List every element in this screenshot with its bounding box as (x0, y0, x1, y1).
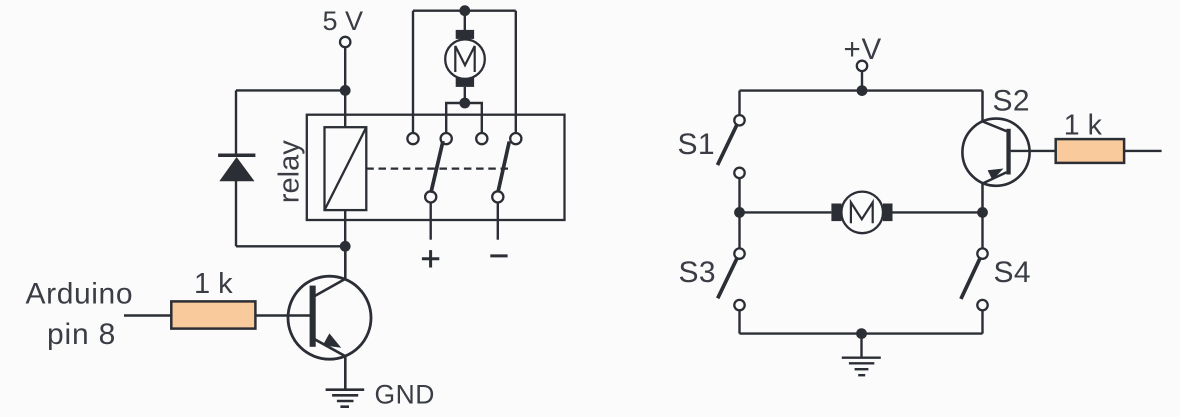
node: motor left junction (734, 207, 745, 218)
switch S4 arm (961, 258, 980, 299)
relay coil diagonal (325, 127, 367, 210)
ground symbol (right) (842, 358, 881, 376)
wire transistor to S4 (981, 212, 983, 248)
switch S3 bottom contact (734, 300, 744, 310)
svg-text:S3: S3 (679, 256, 717, 289)
motor M1 top brush (456, 30, 474, 39)
relay contact terminal 4 (510, 133, 521, 144)
motor M1 letter M (455, 46, 474, 72)
relay pole contact A (425, 191, 436, 202)
wire S1 to motor node (738, 178, 740, 212)
wire S3 to bottom rail (738, 310, 740, 333)
wire diode branch lower vertical (235, 180, 237, 246)
wire motor top lead (464, 11, 466, 31)
wire right drop to contact 4 (515, 11, 517, 133)
relay pole contact B (492, 191, 503, 202)
switch S1 top contact (734, 115, 744, 125)
switch S4 top contact (977, 248, 987, 258)
switch S3 arm (718, 258, 737, 298)
wire pole A lead (430, 203, 432, 240)
switch S1 bottom contact (734, 168, 744, 178)
wire rail to S1 (738, 91, 740, 116)
wire top rail of motor loop (413, 9, 516, 11)
node: motor bottom junction (459, 98, 470, 109)
transistor S2 emitter lead (983, 172, 1007, 212)
relay contact terminal 1 (407, 133, 418, 144)
node: motor top junction (459, 5, 470, 16)
motor M2 letter M (851, 202, 873, 223)
transistor Q1 emitter arrow (323, 333, 341, 347)
node: junction 5V / diode branch (340, 85, 351, 96)
wire motor right lead (893, 211, 983, 213)
label + terminal (422, 250, 439, 267)
wire junction to diode top (236, 89, 345, 91)
5V supply terminal (340, 37, 350, 47)
switch S1 arm (718, 125, 737, 165)
node: +V rail junction (857, 85, 868, 96)
wire bottom rail (740, 332, 983, 334)
+V supply terminal (857, 61, 867, 71)
node: motor right junction (977, 207, 988, 218)
label - terminal (490, 254, 507, 257)
svg-text:pin 8: pin 8 (47, 318, 116, 351)
motor M2 right brush (883, 204, 893, 222)
svg-text:relay: relay (274, 140, 306, 203)
node: collector junction (340, 241, 351, 252)
wire +V terminal drop (861, 71, 863, 91)
transistor S2 collector lead (983, 91, 1007, 132)
relay enclosure box (307, 115, 565, 220)
resistor R1 1k (171, 301, 255, 328)
svg-text:Arduino: Arduino (26, 278, 134, 311)
wire left drop to contact 1 (412, 11, 414, 133)
wire motor bottom lead (464, 87, 466, 103)
svg-text:S1: S1 (678, 128, 716, 161)
switch S3 top contact (734, 248, 744, 258)
transistor S2 base bar (1006, 129, 1010, 175)
svg-text:S4: S4 (994, 256, 1032, 289)
motor M2 left brush (831, 204, 841, 222)
switch S4 bottom contact (977, 300, 987, 310)
svg-text:1 k: 1 k (194, 268, 233, 300)
svg-text:GND: GND (375, 379, 435, 409)
motor M1 bottom brush (456, 78, 474, 87)
svg-text:S2: S2 (993, 85, 1031, 118)
svg-text:1 k: 1 k (1064, 109, 1103, 141)
wire bracket to contacts 2 and 3 (446, 103, 482, 133)
relay switch arm A (431, 141, 443, 193)
relay contact terminal 2 (441, 133, 452, 144)
wire relay coil through-wire (5V to collector) (344, 127, 346, 246)
transistor Q1 collector lead (313, 246, 345, 297)
flyback diode D (triangle) (219, 157, 254, 181)
svg-text:5 V: 5 V (323, 6, 364, 36)
ground symbol (left) (326, 390, 365, 407)
relay contact terminal 3 (476, 133, 487, 144)
resistor R2 1k (1056, 139, 1124, 163)
transistor Q1 emitter lead (313, 338, 345, 389)
wire motor left lead (740, 211, 832, 213)
transistor Q1 body (288, 276, 371, 359)
wire diode bottom to transistor collector node (236, 245, 345, 247)
wire diode branch upper vertical (235, 90, 237, 155)
transistor Q1 base bar (310, 286, 316, 347)
wire base lead (255, 314, 312, 317)
node: ground junction (856, 328, 867, 339)
wire top rail (740, 89, 983, 91)
transistor S2 body (962, 119, 1029, 186)
wire S4 to bottom rail (981, 310, 983, 333)
wire ground lead (860, 334, 862, 358)
relay actuation dashed link (366, 167, 510, 169)
motor M1 body (445, 39, 485, 79)
wire resistor to input (1124, 150, 1162, 152)
wire Arduino pin to resistor (124, 314, 171, 316)
wire pole B lead (497, 203, 499, 240)
wire 5V terminal to relay coil (344, 47, 346, 127)
transistor S2 emitter arrow (988, 169, 1004, 181)
relay switch arm B (498, 142, 509, 193)
motor M2 body (841, 192, 883, 234)
wire S2 base lead (1011, 150, 1056, 152)
flyback diode D (cathode bar) (218, 153, 255, 157)
relay coil rectangle (325, 127, 367, 210)
wire motor node to S3 (738, 212, 740, 248)
